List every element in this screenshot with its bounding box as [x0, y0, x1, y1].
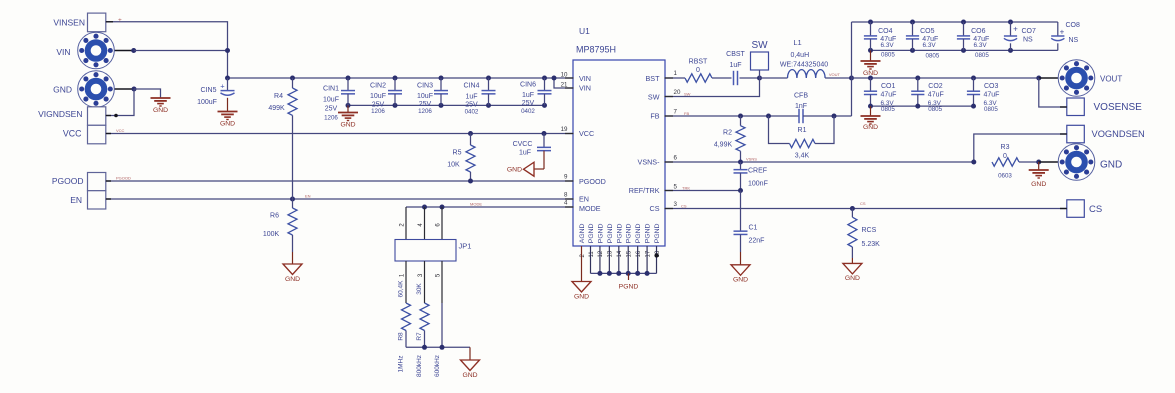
svg-text:PGOOD: PGOOD — [579, 177, 606, 186]
svg-text:SW: SW — [684, 92, 691, 97]
junction FB at R1 right — [832, 114, 837, 119]
junction VSNS at VOGNDSEN tap — [971, 160, 976, 165]
capacitor CIN4 1uF — [488, 78, 490, 91]
svg-text:17: 17 — [645, 250, 651, 257]
capacitor CO6 47uF — [963, 22, 965, 36]
svg-text:R1: R1 — [798, 127, 807, 134]
junction top rail — [961, 20, 966, 25]
svg-text:GND: GND — [53, 85, 72, 95]
capacitor CBST 1uF — [733, 71, 735, 85]
junction top rail — [868, 20, 873, 25]
connector PGOOD — [88, 173, 106, 191]
svg-text:R2: R2 — [723, 129, 732, 136]
connector VINSEN — [88, 13, 106, 32]
svg-text:CO1: CO1 — [881, 83, 896, 90]
junction VSNS at R2/CREF — [738, 160, 743, 165]
wire VIN connector to rail — [134, 50, 228, 52]
wire GND pin (black) — [96, 88, 134, 90]
junction PGND rail — [645, 271, 650, 276]
svg-text:PGND: PGND — [654, 223, 661, 243]
wire JP1 pin5 to ground — [441, 261, 443, 303]
connector CS — [1067, 200, 1085, 218]
svg-text:CIN4: CIN4 — [464, 83, 480, 90]
svg-text:CO5: CO5 — [920, 28, 935, 35]
svg-text:100nF: 100nF — [748, 181, 768, 188]
svg-text:PGND: PGND — [626, 223, 633, 243]
svg-text:VOUT: VOUT — [1100, 74, 1122, 83]
wire BST pin 1 — [665, 77, 685, 79]
svg-text:WE:744325040: WE:744325040 — [780, 62, 828, 69]
junction REF at CREF/C1 — [738, 188, 743, 193]
connector VIN (circular jack) — [78, 32, 115, 69]
junction VIN rail at CIN4 — [486, 76, 491, 81]
svg-text:+: + — [1013, 25, 1018, 34]
svg-text:AGND: AGND — [579, 223, 586, 243]
wire REF/TRK pin 5 — [665, 190, 741, 192]
svg-text:100K: 100K — [263, 231, 280, 238]
wire VOUT riser — [851, 22, 853, 116]
svg-text:CS: CS — [1089, 204, 1102, 215]
svg-text:CO2: CO2 — [928, 83, 943, 90]
resistor R1 3.4K parallel branch — [769, 116, 790, 144]
wire stub to JP1 ground — [469, 347, 471, 360]
svg-text:MODE: MODE — [579, 204, 601, 213]
svg-text:VOUT: VOUT — [829, 72, 841, 77]
svg-text:CVCC: CVCC — [513, 141, 533, 148]
svg-text:47uF: 47uF — [984, 92, 1000, 99]
svg-text:EN: EN — [579, 195, 589, 204]
junction top rail — [910, 20, 915, 25]
junction CS at RCS — [850, 206, 855, 211]
svg-text:6.3V: 6.3V — [923, 42, 937, 49]
wire L1 to VOUT node — [825, 77, 851, 79]
svg-text:CIN6: CIN6 — [520, 81, 536, 88]
connector GND (circular jack) — [78, 71, 115, 108]
connector VIGNDSEN — [88, 107, 106, 126]
junction VOUT rail — [915, 76, 920, 81]
wire VOUT rail — [852, 77, 1039, 79]
wire VIN pin21 branch — [554, 78, 573, 88]
net stub PGND — [628, 273, 630, 280]
svg-text:REF/TRK: REF/TRK — [629, 186, 660, 195]
junction JP1 rail R7 — [422, 345, 427, 350]
pin stub CS connector — [1060, 208, 1067, 210]
wire CO4-CO8 ground rail — [871, 49, 1058, 51]
junction top rail — [1008, 20, 1013, 25]
svg-text:1uF: 1uF — [522, 92, 534, 99]
pin stub VINSEN — [106, 21, 113, 23]
wire PGOOD line — [105, 180, 574, 182]
svg-text:499K: 499K — [268, 105, 285, 112]
resistor R6 100K — [292, 199, 294, 208]
junction ground rail CO4 — [868, 48, 873, 53]
svg-text:4: 4 — [564, 200, 568, 207]
svg-text:GND: GND — [507, 167, 522, 174]
capacitor C1 22nF — [740, 191, 742, 232]
junction pin21 branch — [552, 76, 557, 81]
svg-text:8: 8 — [564, 192, 568, 199]
svg-text:C1: C1 — [749, 224, 758, 231]
svg-text:PGND: PGND — [616, 223, 623, 243]
wire JP1 ground rail — [406, 346, 470, 348]
capacitor CO3 47uF — [973, 78, 975, 91]
svg-text:0603: 0603 — [998, 172, 1012, 179]
junction PGND rail — [607, 271, 612, 276]
svg-text:VINSEN: VINSEN — [53, 17, 85, 27]
ground GND below RCS — [843, 263, 862, 274]
wire MODE line — [406, 206, 573, 208]
svg-text:0805: 0805 — [975, 52, 989, 59]
capacitor CREF 100nF — [740, 162, 742, 170]
svg-text:1206: 1206 — [324, 115, 338, 122]
junction GND node — [1036, 160, 1041, 165]
svg-text:+: + — [118, 17, 122, 24]
svg-text:25V: 25V — [419, 101, 432, 108]
svg-text:+: + — [1060, 28, 1065, 37]
svg-text:0805: 0805 — [881, 106, 895, 113]
svg-text:30K: 30K — [416, 283, 423, 295]
SW test point box — [751, 52, 769, 70]
svg-text:CO6: CO6 — [971, 28, 986, 35]
svg-text:JP1: JP1 — [459, 242, 472, 251]
header JP1 — [395, 240, 456, 262]
junction CIN rail — [346, 103, 351, 108]
junction VOUT at VOSENSE tap — [1036, 76, 1041, 81]
svg-text:GND: GND — [462, 372, 477, 379]
junction ground rail — [910, 48, 915, 53]
junction CO2 ground — [915, 104, 920, 109]
ground GND below CO4 — [870, 50, 872, 61]
junction VOUT rail — [971, 76, 976, 81]
connector VOSENSE — [1067, 98, 1085, 116]
wire VSNS- pin 6 — [665, 161, 974, 163]
wire SW pin 20 — [665, 78, 760, 97]
wire VIN rail — [228, 77, 574, 79]
svg-text:VCC: VCC — [579, 129, 594, 138]
svg-text:VCC: VCC — [63, 129, 82, 139]
wire AGND pin 2 — [581, 246, 583, 282]
connector GND right (circular jack) — [1058, 144, 1095, 181]
junction VIN rail at CIN3 — [439, 76, 444, 81]
junction CO3 ground — [971, 104, 976, 109]
resistor R2 4.99K — [740, 116, 742, 126]
svg-text:6: 6 — [674, 155, 678, 162]
wire VOUT pin (black) — [1039, 77, 1077, 79]
resistor R8 60.4K — [405, 261, 407, 303]
pin stub PGOOD — [106, 180, 111, 182]
svg-text:10uF: 10uF — [323, 97, 339, 104]
junction CIN rail — [542, 103, 547, 108]
ground GND below CO1 — [870, 106, 872, 116]
svg-text:GND: GND — [285, 276, 300, 283]
svg-text:22nF: 22nF — [749, 238, 765, 245]
ground GND below JP1 — [461, 360, 480, 371]
svg-text:0805: 0805 — [881, 52, 895, 59]
junction VIN rail at CIN6 — [542, 76, 547, 81]
svg-text:1206: 1206 — [418, 108, 432, 115]
svg-text:VSNS-: VSNS- — [638, 158, 661, 167]
svg-text:PGND: PGND — [635, 223, 642, 243]
svg-text:TRK: TRK — [682, 186, 690, 191]
svg-text:FB: FB — [684, 111, 689, 116]
svg-text:3: 3 — [674, 201, 678, 208]
svg-text:1uF: 1uF — [465, 94, 477, 101]
svg-text:0402: 0402 — [465, 109, 479, 116]
svg-text:5: 5 — [674, 183, 678, 190]
wire VIN pin (black) — [96, 50, 134, 52]
pin stub VCC — [106, 133, 111, 135]
svg-text:CO8: CO8 — [1066, 22, 1081, 29]
pin stub EN — [106, 198, 111, 200]
junction FB at R1 branch — [766, 114, 771, 119]
svg-text:GND: GND — [733, 277, 748, 284]
svg-text:1MHz: 1MHz — [398, 356, 405, 373]
svg-text:1206: 1206 — [371, 108, 385, 115]
svg-text:0: 0 — [1003, 153, 1007, 160]
connector EN — [88, 191, 106, 209]
capacitor CFB 1nF — [798, 109, 800, 123]
svg-text:0,4uH: 0,4uH — [790, 52, 809, 59]
svg-text:7: 7 — [674, 108, 678, 115]
wire PGND pins 11-18 — [590, 246, 592, 273]
svg-text:U1: U1 — [579, 26, 590, 36]
svg-text:CREF: CREF — [748, 167, 767, 174]
capacitor CO4 47uF — [870, 22, 872, 36]
svg-text:PGOOD: PGOOD — [116, 176, 131, 181]
svg-text:CIN5: CIN5 — [201, 87, 217, 94]
svg-text:GND: GND — [1100, 159, 1122, 170]
resistor R3 0 0603 — [992, 158, 1019, 166]
svg-text:VCC: VCC — [116, 128, 125, 133]
junction CO1 ground — [868, 104, 873, 109]
wire VOGNDSEN to VSNS line — [974, 134, 1067, 162]
svg-text:GND: GND — [845, 275, 860, 282]
svg-text:10uF: 10uF — [370, 93, 386, 100]
svg-text:13: 13 — [608, 250, 614, 257]
junction JP1 rail pin5 — [440, 345, 445, 350]
svg-text:VSNS: VSNS — [746, 157, 757, 162]
svg-text:1: 1 — [674, 70, 678, 77]
junction EN at R4/R6 — [290, 197, 295, 202]
junction ground rail — [1008, 48, 1013, 53]
junction PGND rail — [597, 271, 602, 276]
ground GND bar at output — [1038, 162, 1040, 170]
svg-text:10K: 10K — [447, 162, 460, 169]
junction VIN pin — [131, 48, 136, 53]
svg-text:R3: R3 — [1001, 144, 1010, 151]
inductor L1 0.4uH — [788, 70, 826, 78]
svg-text:0805: 0805 — [928, 106, 942, 113]
svg-text:PGND: PGND — [619, 284, 639, 291]
junction MODE at JP1 pin4 — [422, 205, 427, 210]
svg-text:14: 14 — [617, 250, 623, 257]
svg-text:CBST: CBST — [726, 51, 745, 58]
capacitor CIN5 100uF electrolytic — [227, 78, 229, 90]
svg-text:16: 16 — [636, 250, 642, 257]
svg-text:FB: FB — [650, 112, 659, 121]
svg-text:CFB: CFB — [794, 93, 808, 100]
capacitor CIN1 10uF — [347, 78, 349, 91]
svg-text:1uF: 1uF — [729, 62, 741, 69]
svg-text:SW: SW — [648, 93, 660, 102]
svg-text:MODE: MODE — [470, 202, 482, 207]
svg-text:GND: GND — [153, 107, 168, 114]
svg-text:CS: CS — [681, 204, 687, 209]
svg-text:0805: 0805 — [926, 52, 940, 59]
capacitor CO7 NS — [1010, 22, 1012, 36]
svg-text:R4: R4 — [274, 93, 283, 100]
capacitor CVCC 1uF — [542, 131, 547, 136]
wire GND connector to ground — [134, 89, 161, 98]
capacitor CIN2 10uF — [394, 78, 396, 91]
junction MODE at JP1 pin6 — [440, 205, 445, 210]
wire SW node to L1 — [760, 77, 788, 79]
wire VOUT top rail — [852, 21, 1058, 23]
ground GND below C1 — [731, 265, 750, 276]
svg-text:0: 0 — [696, 67, 700, 74]
U1 left pin stubs — [565, 77, 574, 79]
capacitor CO2 47uF — [917, 78, 919, 91]
svg-text:R6: R6 — [270, 213, 279, 220]
svg-text:RCS: RCS — [862, 227, 877, 234]
wire R3 to GND connector node — [1019, 161, 1039, 163]
wire to VOSENSE — [1039, 78, 1067, 107]
junction CIN rail — [393, 103, 398, 108]
ground GND below CIN1 — [347, 105, 349, 112]
pin stub VIGNDSEN — [106, 115, 111, 117]
capacitor CO1 47uF — [870, 78, 872, 91]
svg-text:25V: 25V — [522, 100, 535, 107]
wire CIN ground rail — [348, 104, 545, 106]
junction node VIN/VINSEN — [225, 48, 230, 53]
junction PGND rail — [626, 271, 631, 276]
junction CIN rail — [439, 103, 444, 108]
svg-text:3,4K: 3,4K — [795, 153, 810, 160]
svg-text:600kHz: 600kHz — [434, 355, 441, 377]
junction ground rail — [961, 48, 966, 53]
svg-text:GND: GND — [340, 122, 355, 129]
svg-text:RBST: RBST — [689, 58, 708, 65]
svg-text:CS: CS — [650, 204, 660, 213]
svg-text:19: 19 — [561, 126, 568, 133]
wire GND to VIGNDSEN — [105, 89, 135, 116]
svg-text:PGOOD: PGOOD — [52, 176, 84, 186]
svg-text:R8: R8 — [398, 332, 405, 341]
wire EN line — [105, 198, 574, 200]
junction PGND rail — [635, 271, 640, 276]
junction VOUT rail — [868, 76, 873, 81]
pin stub VOSENSE — [1060, 106, 1067, 108]
svg-text:100uF: 100uF — [197, 99, 217, 106]
svg-text:PGND: PGND — [597, 223, 604, 243]
svg-text:VOGNDSEN: VOGNDSEN — [1092, 129, 1145, 139]
ground GND arrow at CVCC — [524, 162, 535, 176]
junction FB at R2 — [738, 114, 743, 119]
resistor R7 30K — [424, 261, 426, 303]
svg-text:NS: NS — [1023, 37, 1033, 44]
IC U1 MP8795H — [573, 60, 665, 246]
wire VCC line — [105, 133, 574, 135]
svg-text:4,99K: 4,99K — [714, 142, 733, 149]
wire RBST to CBST — [712, 77, 732, 79]
ground GND below CIN5 — [218, 111, 238, 113]
pin 18 junction dot — [654, 253, 658, 257]
svg-text:47uF: 47uF — [928, 92, 944, 99]
svg-text:800kHz: 800kHz — [416, 355, 423, 377]
svg-text:11: 11 — [589, 251, 595, 258]
svg-text:CIN1: CIN1 — [323, 85, 339, 92]
svg-text:10uF: 10uF — [417, 93, 433, 100]
svg-text:PGND: PGND — [645, 223, 652, 243]
svg-text:5.23K: 5.23K — [862, 241, 881, 248]
wire CBST to SW node — [740, 77, 760, 79]
resistor RBST 0 — [685, 74, 712, 82]
svg-text:VIGNDSEN: VIGNDSEN — [38, 109, 82, 119]
connector VOUT (circular jack) — [1058, 60, 1095, 97]
svg-text:NS: NS — [1069, 37, 1079, 44]
svg-text:PGND: PGND — [588, 223, 595, 243]
svg-text:0402: 0402 — [521, 108, 535, 115]
junction VIN rail at R4 — [290, 76, 295, 81]
svg-text:CO3: CO3 — [984, 83, 999, 90]
resistor R4 499K — [292, 78, 294, 88]
svg-text:EN: EN — [305, 194, 311, 199]
svg-text:CS: CS — [860, 201, 866, 206]
svg-text:12: 12 — [598, 250, 604, 257]
junction GND pin — [132, 87, 137, 92]
junction PGND rail — [616, 271, 621, 276]
ground GND (bar) near GND connector — [151, 97, 171, 99]
wire SW box stub — [759, 70, 761, 78]
svg-text:CO7: CO7 — [1022, 28, 1037, 35]
junction VIN rail at CIN1 — [346, 76, 351, 81]
wire JP1 top legs — [405, 207, 407, 240]
capacitor CO5 47uF — [912, 22, 914, 36]
svg-text:R5: R5 — [453, 150, 462, 157]
svg-text:PGND: PGND — [607, 223, 614, 243]
svg-text:SW: SW — [751, 40, 768, 51]
svg-text:GND: GND — [1031, 181, 1046, 188]
svg-text:BST: BST — [646, 74, 661, 83]
resistor RCS 5.23K — [851, 209, 853, 218]
svg-text:CIN3: CIN3 — [417, 82, 433, 89]
wire CO1-CO3 ground rail — [871, 105, 974, 107]
svg-text:20: 20 — [674, 89, 681, 96]
svg-text:25V: 25V — [465, 101, 478, 108]
svg-text:0805: 0805 — [984, 106, 998, 113]
svg-text:60,4K: 60,4K — [398, 280, 405, 298]
svg-text:GND: GND — [574, 293, 589, 300]
svg-text:R7: R7 — [416, 332, 423, 341]
resistor R5 10K — [468, 131, 473, 136]
junction CIN rail — [486, 103, 491, 108]
pin stub VOGNDSEN — [1060, 133, 1067, 135]
junction VOUT node — [849, 76, 854, 81]
svg-text:CIN2: CIN2 — [370, 83, 386, 90]
svg-text:9: 9 — [564, 174, 568, 181]
junction VIN rail at CIN5 — [225, 76, 230, 81]
svg-text:L1: L1 — [793, 38, 801, 47]
wire GND pin right (black) — [1039, 161, 1077, 163]
svg-text:VIN: VIN — [579, 83, 591, 92]
svg-text:VIN: VIN — [579, 74, 591, 83]
capacitor CIN6 1uF — [544, 78, 546, 91]
svg-text:VIN: VIN — [56, 47, 70, 57]
svg-text:GND: GND — [863, 124, 878, 131]
svg-text:6.3V: 6.3V — [881, 42, 895, 49]
junction SW node — [757, 76, 762, 81]
svg-text:VOSENSE: VOSENSE — [1094, 102, 1143, 113]
